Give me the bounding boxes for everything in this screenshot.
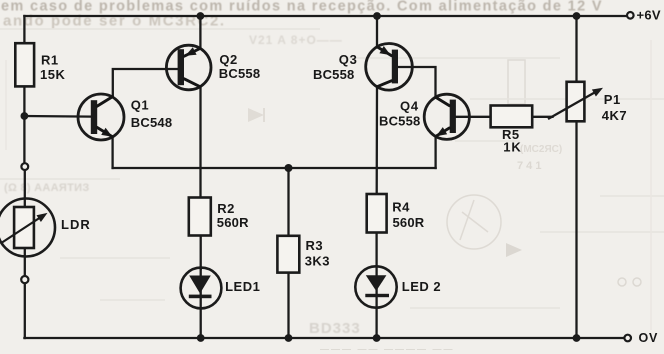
- Q1 collector diagonal: [97, 97, 112, 106]
- resistor R5: [491, 106, 533, 128]
- svg-text:Q2: Q2: [219, 52, 237, 67]
- transistor Q4: [379, 94, 469, 139]
- resistor R3: [277, 236, 299, 273]
- background bleed phantom diode top: [248, 108, 264, 122]
- svg-text:(MС2ЯС): (MС2ЯС): [520, 144, 562, 155]
- wire Q4 base to R5: [456, 116, 491, 118]
- svg-text:LED1: LED1: [225, 279, 260, 294]
- emitter bus wire: [113, 167, 436, 169]
- transistor Q2: [166, 45, 260, 90]
- svg-text:BD333: BD333: [309, 320, 361, 337]
- wire R1 bottom to LDR top terminal: [23, 86, 25, 162]
- svg-text:BC558: BC558: [219, 66, 260, 81]
- node Q3 emitter / top rail: [373, 12, 381, 20]
- bottom rail wire: [24, 337, 623, 339]
- potentiometer P1: [548, 82, 627, 123]
- resistor R4: [367, 194, 387, 233]
- wire Q4 collector diagonal: [436, 97, 450, 106]
- wire Q1 collector to Q2 base: [97, 69, 178, 106]
- node emitter bus / R3: [285, 164, 293, 172]
- wire bottom terminal to 0V rail: [24, 284, 26, 338]
- wire LED1 to 0V rail: [200, 268, 202, 338]
- wire R1/LDR node to Q1 base: [24, 115, 90, 118]
- svg-text:Q4: Q4: [400, 99, 419, 114]
- LED LED2: [355, 266, 441, 307]
- left supply wire (top rail to R1): [23, 16, 25, 43]
- svg-text:P1: P1: [604, 92, 621, 107]
- LDR top terminal: [21, 163, 28, 170]
- svg-text:3K3: 3K3: [305, 254, 330, 269]
- wire R3 bottom to 0V rail: [287, 273, 289, 338]
- svg-text:15K: 15K: [40, 67, 65, 82]
- wire top terminal to LDR circle: [24, 171, 26, 208]
- 0V supply terminal: [624, 335, 631, 342]
- svg-text:4K7: 4K7: [602, 108, 627, 123]
- background bleed faint circles: [618, 278, 626, 286]
- background bleed phantom box: [508, 60, 525, 104]
- svg-text:——— —— ———— ——: ——— —— ———— ——: [320, 344, 455, 354]
- Q4 collector diagonal: [436, 97, 449, 105]
- svg-text:1K: 1K: [503, 140, 521, 155]
- transistor Q3: [313, 44, 412, 91]
- background bleed phantom transistor: [447, 195, 501, 249]
- svg-text:560R: 560R: [217, 215, 249, 230]
- svg-text:560R: 560R: [393, 215, 425, 230]
- wire +6V rail to P1 top: [575, 16, 577, 82]
- svg-text:BC548: BC548: [131, 115, 172, 130]
- Q4 emitter diagonal: [436, 128, 449, 136]
- svg-text:(Ω 8) AАAЯTИЗ: (Ω 8) AАAЯTИЗ: [4, 182, 90, 194]
- transistor Q1: [78, 94, 172, 140]
- node LED1 / 0V rail: [197, 334, 205, 342]
- svg-text:R2: R2: [217, 201, 235, 216]
- wire Q3 collector down to R4: [377, 81, 392, 194]
- node R1/LDR/Q1-base junction: [21, 112, 29, 120]
- node LED2 / 0V rail: [373, 334, 381, 342]
- wire Q4 emitter to emitter bus: [436, 128, 450, 168]
- Q3 emitter diagonal: [377, 47, 391, 56]
- resistor R2: [189, 198, 211, 236]
- background bleed phantom diode: [506, 243, 522, 257]
- svg-text:Q1: Q1: [131, 98, 149, 113]
- wire R3 top: [287, 168, 289, 236]
- wire R5 to P1 wiper: [532, 116, 552, 118]
- wire Q1 emitter to emitter bus: [97, 128, 113, 168]
- wire R4 bottom through LED2 to 0V rail: [375, 233, 377, 339]
- wire P1 bottom to 0V rail: [575, 121, 577, 338]
- wire R2 to LED1: [200, 236, 202, 270]
- faint scan ruling lines: [0, 29, 664, 308]
- node Q2 emitter / top rail: [197, 12, 205, 20]
- svg-text:R3: R3: [306, 238, 324, 253]
- node P1 / 0V rail: [573, 334, 581, 342]
- svg-text:+6V: +6V: [637, 8, 661, 23]
- node P1 / top rail: [573, 12, 581, 20]
- LED LED1: [181, 268, 261, 309]
- wire Q3 emitter to +6V rail: [377, 16, 392, 56]
- Q2 emitter diagonal: [184, 49, 200, 57]
- svg-text:LDR: LDR: [61, 217, 91, 232]
- Q2 collector diagonal: [184, 79, 200, 87]
- resistor R1: [15, 43, 34, 86]
- svg-text:Q3: Q3: [339, 52, 358, 67]
- top rail wire: [24, 15, 626, 17]
- wire Q2 emitter to +6V rail: [184, 16, 200, 56]
- Q3 collector diagonal: [377, 81, 391, 87]
- wire Q3 base to Q4 collector: [398, 67, 436, 97]
- svg-text:R4: R4: [392, 200, 410, 215]
- LDR bottom terminal: [21, 276, 28, 283]
- svg-text:BC558: BC558: [379, 114, 420, 129]
- node R3 / 0V rail: [285, 334, 293, 342]
- svg-text:OV: OV: [639, 331, 659, 345]
- svg-text:R1: R1: [41, 53, 59, 68]
- wire LDR circle to bottom terminal: [24, 248, 26, 275]
- LDR: [0, 199, 91, 257]
- svg-text:BC558: BC558: [313, 67, 354, 82]
- svg-text:LED 2: LED 2: [402, 279, 441, 294]
- wire Q2 collector down to R2: [184, 79, 201, 198]
- Q1 emitter diagonal: [97, 127, 112, 136]
- svg-text:V21 A 8+O——: V21 A 8+O——: [249, 33, 343, 47]
- svg-text:7 4 1: 7 4 1: [517, 160, 541, 172]
- +6V supply terminal: [627, 12, 634, 19]
